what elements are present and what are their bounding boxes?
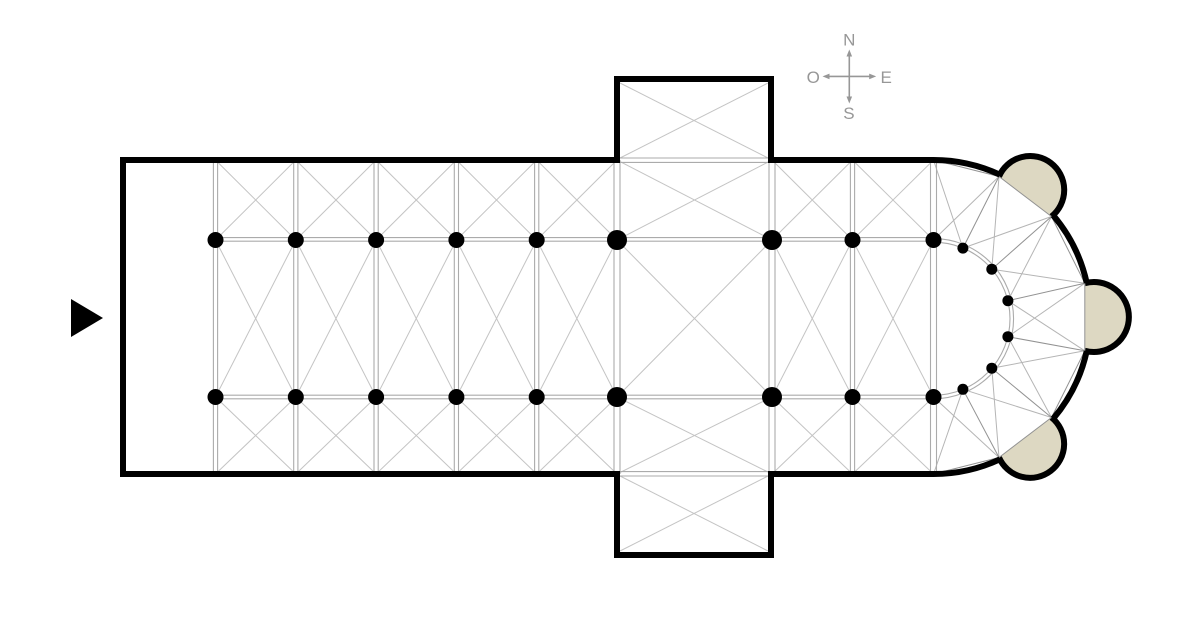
ambulatory chord W0-W1	[934, 160, 1000, 177]
radiating chapel (east, axial)	[1085, 282, 1129, 352]
vault rib: aisle X (south)	[617, 397, 772, 474]
apse wall arc (north-east)	[1053, 215, 1087, 283]
vault rib: nave X	[296, 240, 376, 397]
hemicycle column 6	[957, 384, 968, 395]
vault rib: nave X	[772, 240, 853, 397]
ambulatory rib D6-W5	[963, 389, 1052, 417]
bay division double line at x=376.1	[373, 160, 375, 474]
compass arrowhead west	[823, 74, 830, 80]
vault rib: aisle X (south)	[216, 397, 296, 474]
entrance arrow (west portal)	[71, 299, 103, 337]
north arcade double line	[216, 237, 934, 239]
svg-text:S: S	[843, 104, 854, 123]
ambulatory radial D5-W5	[992, 368, 1052, 417]
vault rib: nave X	[216, 240, 296, 397]
vault rib: nave X	[376, 240, 456, 397]
vault rib: nave X	[216, 240, 296, 397]
vault rib: aisle X (north)	[456, 160, 536, 240]
vault rib: aisle X (south)	[853, 397, 934, 474]
ambulatory rib D3-W4	[1008, 301, 1085, 351]
ambulatory radial D6-W6	[963, 389, 999, 457]
vault rib: nave X	[853, 240, 934, 397]
north choir wall	[771, 157, 934, 163]
south transept arm wall	[617, 471, 771, 555]
ambulatory rib D6-W7	[934, 389, 963, 474]
vault rib: aisle X (north)	[617, 160, 772, 240]
bay division double line at x=215.5	[212, 160, 214, 474]
bay division double line at x=295.8	[293, 160, 295, 474]
svg-text:E: E	[881, 68, 892, 87]
column pier at x=536.7, north row	[529, 232, 545, 248]
radiating chapel (south-east)	[999, 417, 1064, 477]
vault rib: nave X	[456, 240, 536, 397]
crossing pier at x=617.0, south	[607, 387, 627, 407]
hemicycle pier north	[926, 232, 942, 248]
vault rib: nave X	[376, 240, 456, 397]
column pier at x=376.1, south row	[368, 389, 384, 405]
column pier at x=295.8, north row	[288, 232, 304, 248]
crossing pier at x=772.0, south	[762, 387, 782, 407]
vault rib: south transept X	[620, 476, 768, 551]
column pier at x=852.5, south row	[845, 389, 861, 405]
ambulatory chord W3-W4	[1084, 283, 1086, 351]
compass arrowhead east	[869, 74, 876, 80]
apse wall arc (north)	[934, 160, 1000, 175]
vault rib: aisle X (south)	[537, 397, 617, 474]
hemicycle column 4	[1002, 331, 1013, 342]
ambulatory radial D3-W3	[1008, 283, 1085, 301]
vault rib: aisle X (north)	[537, 160, 617, 240]
vault rib: aisle X (south)	[456, 397, 536, 474]
vault rib: aisle X (north)	[216, 160, 296, 240]
vault rib: north transept X	[620, 83, 768, 158]
column pier at x=376.1, north row	[368, 232, 384, 248]
vault rib: aisle X (north)	[772, 160, 853, 240]
ambulatory chord W5-W6	[999, 418, 1052, 458]
hemicycle column 1	[957, 243, 968, 254]
south choir wall	[771, 471, 934, 477]
apse wall arc (south)	[934, 459, 1000, 474]
crossing pier at x=617.0, north	[607, 230, 627, 250]
hemicycle column 5	[986, 363, 997, 374]
svg-text:N: N	[843, 31, 855, 50]
vault rib: nave X	[456, 240, 536, 397]
crossing pier at x=772.0, north	[762, 230, 782, 250]
vault rib: aisle X (south)	[296, 397, 376, 474]
column pier at x=215.5, south row	[208, 389, 224, 405]
ambulatory rib D4-W3	[1008, 283, 1085, 337]
south arcade double line	[216, 394, 934, 396]
vault rib: aisle X (north)	[617, 160, 772, 240]
hemicycle column 2	[986, 264, 997, 275]
vault rib: aisle X (south)	[376, 397, 456, 474]
vault rib: aisle X (north)	[296, 160, 376, 240]
vault rib: north transept X	[620, 83, 768, 158]
north transept opening double line	[617, 157, 771, 159]
vault rib: aisle X (south)	[853, 397, 934, 474]
vault rib: aisle X (south)	[537, 397, 617, 474]
column pier at x=536.7, south row	[529, 389, 545, 405]
radiating chapel (north-east)	[999, 156, 1064, 217]
ambulatory chord W6-W7	[934, 458, 1000, 475]
vault rib: nave X	[537, 240, 617, 397]
vault rib: nave X	[537, 240, 617, 397]
ambulatory rib D5-W6	[992, 368, 999, 457]
vault rib: aisle X (south)	[617, 397, 772, 474]
ambulatory rib D2-W3	[992, 269, 1085, 283]
vault rib: aisle X (south)	[376, 397, 456, 474]
vault rib: aisle X (north)	[853, 160, 934, 240]
vault rib: nave X	[617, 240, 772, 397]
compass arrowhead south	[847, 97, 853, 104]
hemicycle pier south	[926, 389, 942, 405]
apse wall arc (south-east)	[1053, 351, 1087, 419]
vault rib: nave X	[617, 240, 772, 397]
ambulatory chord W4-W5	[1052, 351, 1085, 418]
ambulatory radial D1-W1	[963, 177, 999, 249]
vault rib: south transept X	[620, 476, 768, 551]
compass horizontal line	[828, 75, 871, 77]
compass vertical line	[848, 54, 850, 99]
vault rib: aisle X (south)	[772, 397, 853, 474]
vault rib: nave X	[772, 240, 853, 397]
ambulatory radial D4-W4	[1008, 337, 1085, 351]
vault rib: aisle X (south)	[456, 397, 536, 474]
vault rib: aisle X (north)	[853, 160, 934, 240]
ambulatory rib D1-W0	[934, 160, 963, 248]
column pier at x=852.5, north row	[845, 232, 861, 248]
south transept opening double line	[617, 471, 771, 473]
vault rib: aisle X (south)	[772, 397, 853, 474]
vault rib: aisle X (north)	[376, 160, 456, 240]
ambulatory rib D7-W6	[934, 397, 1000, 458]
vault rib: aisle X (north)	[772, 160, 853, 240]
vault rib: nave X	[853, 240, 934, 397]
vault rib: aisle X (north)	[216, 160, 296, 240]
west block outer wall	[123, 160, 617, 474]
column pier at x=456.4, north row	[448, 232, 464, 248]
vault rib: aisle X (south)	[216, 397, 296, 474]
ambulatory rib D5-W4	[992, 351, 1085, 368]
svg-text:O: O	[807, 68, 820, 87]
vault rib: aisle X (north)	[296, 160, 376, 240]
ambulatory chord W1-W2	[999, 177, 1052, 217]
hemicycle arcade double arc	[934, 242, 1011, 395]
ambulatory rib D3-W2	[1008, 217, 1052, 301]
ambulatory chord W2-W3	[1052, 217, 1085, 284]
vault rib: aisle X (south)	[296, 397, 376, 474]
north transept arm wall	[617, 79, 771, 163]
ambulatory rib D0-W1	[934, 177, 1000, 241]
compass arrowhead north	[847, 50, 853, 57]
crossing pier double line at x=772.0	[768, 160, 770, 474]
bay division double line at x=456.4	[453, 160, 455, 474]
bay division double line at x=933.5	[930, 160, 932, 474]
vault rib: nave X	[296, 240, 376, 397]
crossing pier double line at x=617.0	[613, 160, 615, 474]
bay division double line at x=536.7	[534, 160, 536, 474]
bay division double line at x=852.5	[849, 160, 851, 474]
vault rib: aisle X (north)	[537, 160, 617, 240]
vault rib: aisle X (north)	[456, 160, 536, 240]
ambulatory rib D2-W1	[992, 177, 999, 270]
ambulatory rib D1-W2	[963, 217, 1052, 249]
column pier at x=295.8, south row	[288, 389, 304, 405]
ambulatory radial D2-W2	[992, 217, 1052, 270]
ambulatory rib D4-W5	[1008, 337, 1052, 418]
column pier at x=456.4, south row	[448, 389, 464, 405]
hemicycle column 3	[1002, 295, 1013, 306]
vault rib: aisle X (north)	[376, 160, 456, 240]
column pier at x=215.5, north row	[208, 232, 224, 248]
